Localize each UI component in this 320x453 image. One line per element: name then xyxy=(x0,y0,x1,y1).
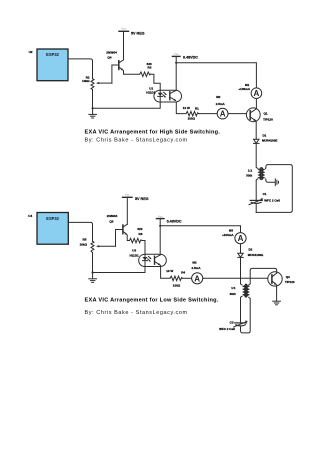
svg-text:MUR4100E: MUR4100E xyxy=(262,139,278,143)
capacitor C1 WFC 2 Cell xyxy=(249,192,280,212)
svg-text:Vcc: Vcc xyxy=(125,193,130,197)
svg-text:A: A xyxy=(194,274,200,283)
svg-text:A: A xyxy=(220,110,226,119)
capacitor C3 WFC 2 Cell xyxy=(219,321,248,332)
wire T2 primary bottom to C3 xyxy=(241,296,243,322)
wire junction to U1 LED cathode xyxy=(93,102,161,108)
microcontroller U2 ESP32 xyxy=(29,49,68,81)
transistor Q2 TIP120 xyxy=(268,272,295,286)
resistor R3 620 xyxy=(140,62,152,77)
wire C3 bottom to T2 secondary bottom xyxy=(241,297,251,333)
wire Q4 emitter to R3 xyxy=(124,71,140,75)
wire 0.48VDC rail to M1 xyxy=(176,63,256,88)
svg-text:D2: D2 xyxy=(249,248,253,252)
wire Q2 collector to T2 secondary top xyxy=(249,268,277,285)
power Vcc 5V REG (top) xyxy=(119,27,145,36)
wire M1 to Q1 collector xyxy=(255,99,257,109)
svg-text:By: Chris Bake - StansLegacy.c: By: Chris Bake - StansLegacy.com xyxy=(85,310,188,316)
wire U4 output to R5 top xyxy=(68,222,92,241)
svg-text:C1: C1 xyxy=(263,192,267,196)
svg-text:Q4: Q4 xyxy=(107,56,111,60)
wire Q3 emitter to R6 xyxy=(127,235,129,241)
transistor Q4 2N3904 xyxy=(106,51,123,71)
ground under R2 xyxy=(89,108,97,118)
power Vcc 5V REG (bottom) xyxy=(123,193,149,201)
svg-text:10 W: 10 W xyxy=(166,269,173,273)
svg-text:0.48VDC: 0.48VDC xyxy=(183,56,198,60)
wire Q1 emitter to D1 xyxy=(255,121,257,139)
svg-text:R3: R3 xyxy=(148,66,152,70)
ground under R5 xyxy=(89,273,97,283)
svg-text:C3: C3 xyxy=(230,321,234,325)
wire R5 bottom to ground junction xyxy=(92,253,94,273)
wire 0.48VDC rail to M3 xyxy=(160,226,240,233)
wire T1 secondary top to loop right side xyxy=(256,165,292,213)
svg-text:+100mA: +100mA xyxy=(222,233,234,237)
svg-text:H11D1: H11D1 xyxy=(146,90,156,94)
svg-text:MUR4100E: MUR4100E xyxy=(248,253,264,257)
wire R2 wiper to Q4 base xyxy=(112,65,118,83)
wire U1 emitter to R1 xyxy=(176,102,186,114)
wire U2 output to R2 top xyxy=(68,59,93,79)
svg-text:R4: R4 xyxy=(181,270,185,274)
svg-text:620: 620 xyxy=(137,227,142,231)
wire Vcc to U3 collector xyxy=(159,219,161,255)
diode D1 MUR4100E xyxy=(254,134,278,144)
transistor Q1 TIP120 xyxy=(246,108,273,122)
svg-text:+100mA: +100mA xyxy=(238,87,250,91)
ammeter M1 +100mA xyxy=(238,83,261,98)
svg-text:A: A xyxy=(238,234,244,243)
wire M2 to Q2 base (crosses transformer leads) xyxy=(203,277,268,279)
svg-text:100Ω: 100Ω xyxy=(188,116,196,120)
transistor Q3 2N3904 xyxy=(107,214,128,235)
wire D1 to T1 primary xyxy=(256,143,258,168)
ammeter M2 2.5mA (top) xyxy=(216,95,228,119)
wire M2 to Q1 base xyxy=(228,113,250,115)
microcontroller U4 ESP32 xyxy=(28,213,68,245)
svg-text:Vcc: Vcc xyxy=(174,52,179,56)
svg-text:Q1: Q1 xyxy=(264,111,268,115)
svg-text:M2: M2 xyxy=(216,95,220,99)
svg-text:Vcc: Vcc xyxy=(158,214,163,218)
wire Q3 collector to Vcc xyxy=(126,197,128,224)
svg-text:A: A xyxy=(254,89,260,98)
chassis ground (sideways) at T1 secondary xyxy=(275,179,278,186)
power Vcc 0.48VDC (top) xyxy=(172,52,198,59)
svg-text:100Ω: 100Ω xyxy=(173,284,181,288)
svg-text:300t: 300t xyxy=(230,292,236,296)
node junction on 0.48VDC rail xyxy=(175,62,177,64)
transformer T2 1:1 300t (bottom) xyxy=(230,284,250,297)
svg-text:Q2: Q2 xyxy=(286,275,290,279)
svg-text:WFC 2 Cell: WFC 2 Cell xyxy=(219,327,235,331)
wire R1 to M2 xyxy=(199,113,218,115)
wire T1 secondary bottom to chassis ground xyxy=(265,179,275,182)
potentiometer R2 10k xyxy=(82,75,112,89)
wire R2 bottom to ground junction xyxy=(92,90,94,109)
svg-text:U3: U3 xyxy=(132,249,136,253)
svg-text:TIP120: TIP120 xyxy=(263,118,273,122)
diode D2 MUR4100E xyxy=(238,248,263,258)
optocoupler U3 H11D1 xyxy=(130,249,167,267)
wire R4 to M2 xyxy=(182,277,191,279)
transformer T1 1:1 300t (top) xyxy=(246,168,265,180)
wire M3 to D2 xyxy=(240,244,242,254)
svg-text:2N3904: 2N3904 xyxy=(106,51,117,55)
svg-text:U2: U2 xyxy=(29,50,33,54)
wire R6 to U3 anode xyxy=(142,241,145,255)
potentiometer R5 10k xyxy=(80,238,116,253)
ground at Q2 emitter xyxy=(273,301,281,305)
svg-text:2.5mA: 2.5mA xyxy=(216,102,226,106)
svg-text:1:1: 1:1 xyxy=(248,169,253,173)
ammeter M3 +100mA xyxy=(222,229,246,244)
svg-text:1:1: 1:1 xyxy=(231,286,236,290)
optocoupler U1 H11D1 xyxy=(146,87,181,102)
svg-text:EXA VIC Arrangement for Low Si: EXA VIC Arrangement for Low Side Switchi… xyxy=(85,298,219,304)
wire U3 emitter to R4 xyxy=(161,265,170,278)
svg-text:Q3: Q3 xyxy=(109,220,113,224)
svg-text:300t: 300t xyxy=(246,174,252,178)
node junction on 0.48VDC rail (bottom) xyxy=(159,225,161,227)
svg-text:R6: R6 xyxy=(139,232,143,236)
resistor R6 620 xyxy=(130,227,143,243)
svg-text:M2: M2 xyxy=(192,261,196,265)
svg-text:2.5mA: 2.5mA xyxy=(192,266,202,270)
node junction at R5 bottom xyxy=(92,271,94,273)
wire R5 wiper to Q3 base xyxy=(116,230,123,247)
svg-text:Vcc: Vcc xyxy=(121,27,126,31)
svg-text:10 W: 10 W xyxy=(183,106,190,110)
svg-text:5V REG: 5V REG xyxy=(135,197,149,201)
node junction at R2 bottom xyxy=(92,107,94,109)
svg-text:R1: R1 xyxy=(195,106,199,110)
wire R3 to U1 anode xyxy=(150,74,160,90)
svg-text:ESP32: ESP32 xyxy=(46,52,59,57)
svg-text:2N3904: 2N3904 xyxy=(107,214,118,218)
svg-text:By: Chris Bake - StansLegacy.c: By: Chris Bake - StansLegacy.com xyxy=(85,137,188,143)
svg-text:U4: U4 xyxy=(28,214,32,218)
svg-text:TIP120: TIP120 xyxy=(285,280,295,284)
svg-text:R5: R5 xyxy=(83,238,87,242)
svg-text:5V REG: 5V REG xyxy=(131,31,145,35)
svg-text:EXA VIC Arrangement for High S: EXA VIC Arrangement for High Side Switch… xyxy=(85,130,221,136)
svg-text:WFC 2 Cell: WFC 2 Cell xyxy=(264,198,280,202)
power Vcc 0.48VDC (bottom) xyxy=(156,214,181,223)
ammeter M2 2.5mA (bottom) xyxy=(192,261,203,284)
svg-text:M3: M3 xyxy=(229,229,233,233)
svg-text:10kΩ: 10kΩ xyxy=(80,243,88,247)
svg-text:0.48VDC: 0.48VDC xyxy=(167,219,182,223)
wire Q4 collector to Vcc xyxy=(123,31,125,60)
svg-text:10kΩ: 10kΩ xyxy=(82,79,90,83)
wire Vcc to U1 collector xyxy=(175,56,177,90)
svg-text:ESP32: ESP32 xyxy=(46,216,59,221)
svg-text:D1: D1 xyxy=(263,134,267,138)
resistor R1 10 W 100ohm xyxy=(183,106,199,120)
wire T1 primary bottom to C1 xyxy=(256,179,258,200)
resistor R4 10 W 100ohm xyxy=(166,269,185,288)
wire junction to U3 LED cathode xyxy=(93,266,145,272)
wire Q2 emitter to ground xyxy=(276,285,278,301)
wire D2 to T2 primary top (crosses base wire) xyxy=(241,257,243,285)
svg-text:H11D1: H11D1 xyxy=(130,253,140,257)
